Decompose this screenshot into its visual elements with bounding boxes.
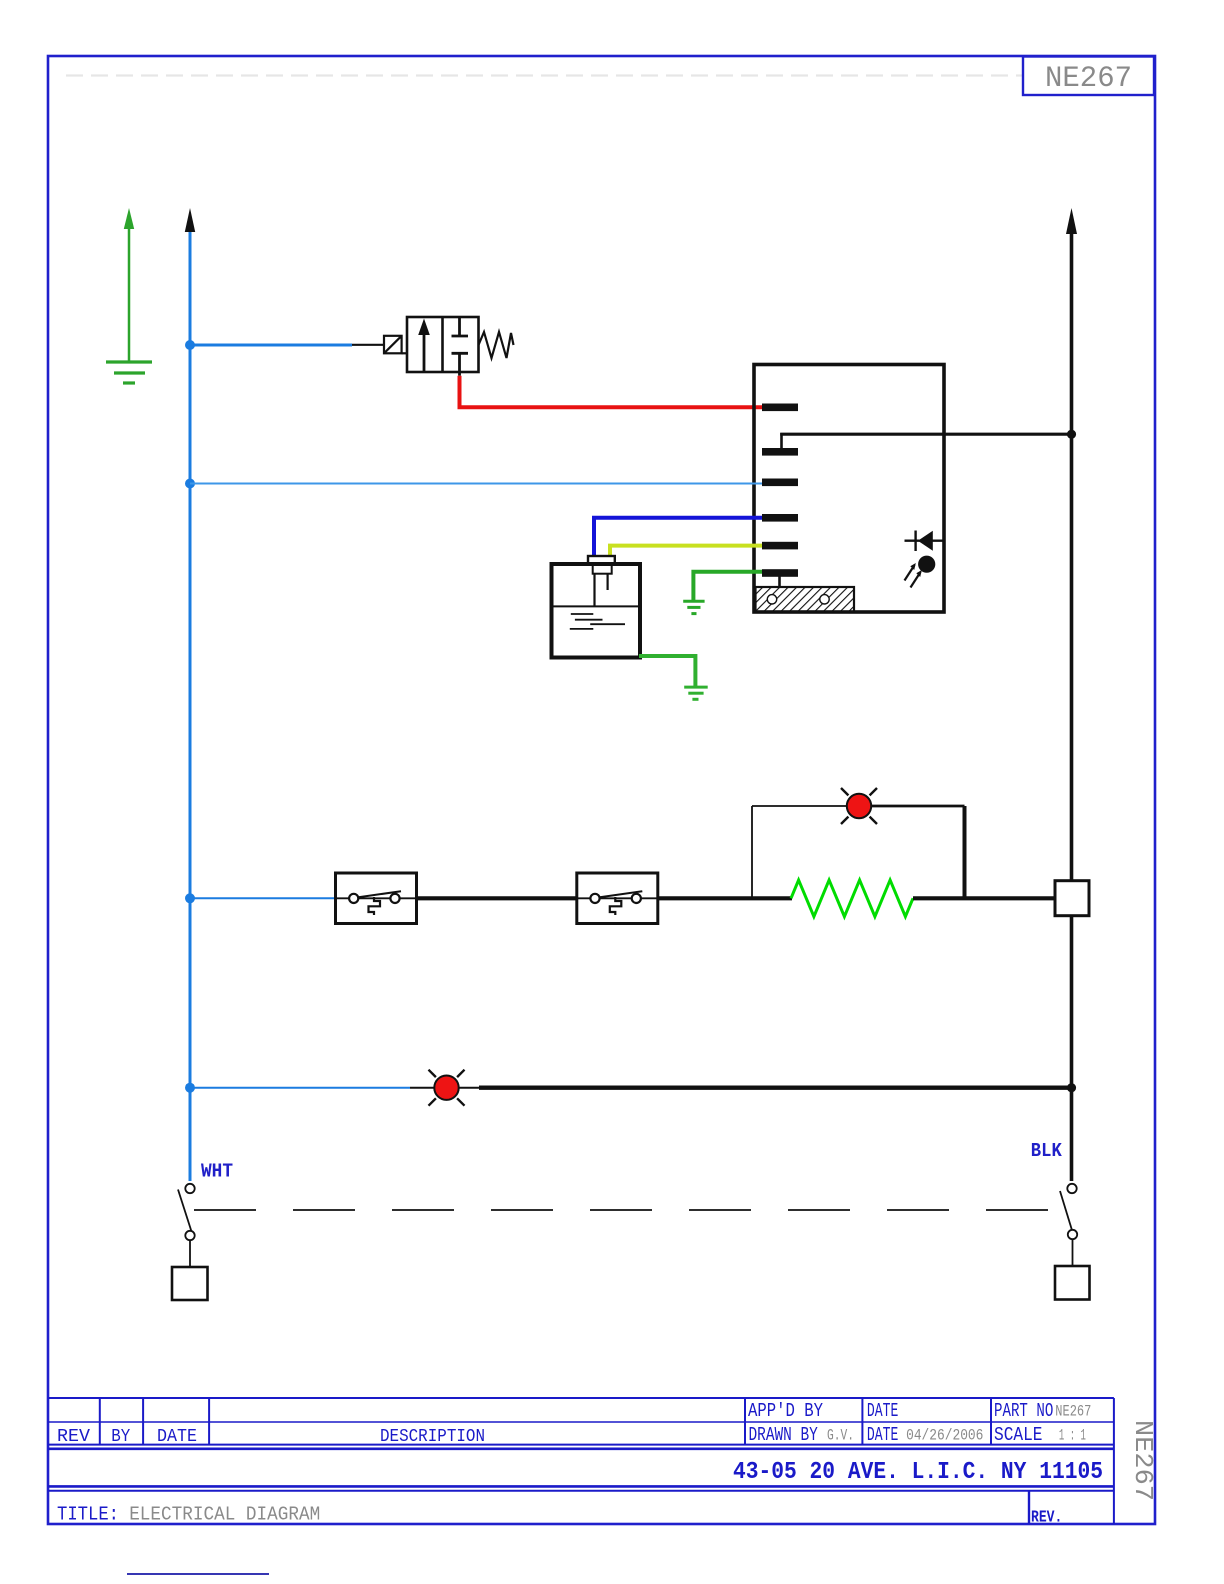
- svg-text:NE267: NE267: [1128, 1420, 1158, 1501]
- solenoid coil actuator: [384, 336, 407, 354]
- thermal switch S2: [577, 873, 658, 924]
- wire: SW1 to plug blade: [189, 1240, 191, 1267]
- wire: SW2 to plug blade: [1072, 1239, 1074, 1266]
- svg-text:NE267: NE267: [1045, 62, 1132, 96]
- lamp L1 branch top wire: [752, 805, 846, 807]
- valve flow arrow: [423, 331, 426, 371]
- svg-text:04/26/2006: 04/26/2006: [906, 1427, 983, 1445]
- svg-text:DESCRIPTION: DESCRIPTION: [380, 1427, 485, 1447]
- node: rail to pin3 wire: [185, 479, 195, 489]
- node on BLK rail at lamp row: [1067, 1083, 1076, 1092]
- faint fold line: [66, 74, 1150, 76]
- pin 3: [762, 479, 798, 487]
- svg-text:ELECTRICAL DIAGRAM: ELECTRICAL DIAGRAM: [129, 1504, 320, 1526]
- sensor arrow 2: [911, 572, 921, 588]
- svg-text:G.V.: G.V.: [827, 1427, 854, 1445]
- svg-text:REV.: REV.: [1031, 1509, 1062, 1528]
- svg-text:PART NO: PART NO: [994, 1400, 1053, 1422]
- pin 6: [762, 569, 798, 577]
- node: rail to valve wire: [185, 340, 195, 350]
- level sensor cap: [588, 556, 615, 574]
- svg-text:BLK: BLK: [1031, 1140, 1063, 1162]
- wire: pin 6 drop to mount: [778, 576, 781, 588]
- wire: resistor to junction block: [913, 896, 1055, 900]
- svg-text:DATE: DATE: [867, 1400, 898, 1422]
- wire: rail to switch S1 (blue): [190, 897, 336, 899]
- svg-text:SCALE: SCALE: [994, 1424, 1043, 1446]
- node: rail to lamp row: [185, 1083, 195, 1093]
- tank T1: [552, 564, 641, 658]
- pin 4: [762, 514, 798, 522]
- green arrowhead: [124, 208, 134, 229]
- svg-text:NE267: NE267: [1055, 1403, 1091, 1421]
- wire: black lead into solenoid coil: [352, 344, 384, 346]
- node on BLK rail: [1067, 430, 1076, 439]
- valve blocked port bottom: [452, 353, 469, 375]
- WHT supply rail (blue vertical): [189, 228, 192, 1181]
- lamp L1 branch left leg: [751, 806, 753, 898]
- sensor probe long: [593, 574, 595, 606]
- pin 2: [762, 448, 798, 456]
- wire: valve to controller pin 1 (red): [460, 376, 764, 408]
- svg-text:REV: REV: [57, 1427, 90, 1447]
- wire: level sensor to pin 5 (yellow): [610, 546, 762, 557]
- wire: level sensor to pin 4 (blue): [594, 518, 762, 557]
- thermal switch S1: [336, 873, 417, 924]
- valve V1 body: [407, 317, 479, 372]
- wire: S2 to resistor: [658, 896, 792, 900]
- title block: vertical lines: [99, 1398, 101, 1445]
- controller module U1: [754, 365, 944, 613]
- svg-text:WHT: WHT: [201, 1161, 233, 1183]
- svg-text:APP'D BY: APP'D BY: [748, 1400, 823, 1422]
- bottom margin blue mark: [127, 1573, 269, 1575]
- svg-text:DRAWN BY: DRAWN BY: [749, 1424, 819, 1446]
- junction block X1: [1055, 881, 1089, 916]
- ground at tank: [684, 687, 708, 699]
- svg-text:DATE: DATE: [867, 1424, 898, 1446]
- svg-text:1 : 1: 1 : 1: [1059, 1427, 1086, 1445]
- SW2 blade: [1060, 1191, 1073, 1234]
- plug blade B (square): [1055, 1266, 1090, 1300]
- valve return spring: [479, 332, 514, 358]
- wire: tank to ground (green): [639, 656, 695, 687]
- ground at pin 6: [683, 601, 704, 613]
- mounting bar (hatched): [756, 587, 855, 611]
- liquid level line: [554, 605, 639, 607]
- wire: S1 to S2: [417, 896, 577, 900]
- black arrowhead on BLK rail: [1066, 208, 1077, 234]
- indicator lamp L2: [429, 1070, 465, 1106]
- lamp L1 branch right leg: [963, 806, 967, 898]
- pin 5: [762, 542, 798, 550]
- internal LED D1: [905, 531, 944, 552]
- liquid ripples: [570, 614, 625, 629]
- wire: pin 6 to ground (green): [693, 572, 762, 602]
- wire: lamp L2 to BLK rail: [479, 1085, 1072, 1089]
- plug switch SW1 terminal top: [185, 1184, 194, 1193]
- photo sensor dot: [918, 556, 935, 573]
- mechanical linkage (dashed): [194, 1209, 1064, 1211]
- BLK rail (black vertical): [1070, 232, 1074, 881]
- plug blade W (square): [172, 1267, 208, 1300]
- wire: pin 2 to BLK rail (black): [780, 433, 1071, 436]
- SW1 blade: [178, 1190, 192, 1232]
- lamp L2 leads: [410, 1087, 435, 1089]
- SW2 terminal bottom: [1068, 1230, 1077, 1239]
- black arrowhead on WHT rail: [185, 208, 195, 232]
- plug switch SW2 terminal top: [1067, 1184, 1076, 1193]
- drawing number box NE267: [1023, 57, 1154, 96]
- valve blocked port top: [452, 317, 469, 336]
- sensor probe short: [606, 574, 608, 590]
- wire: rail to pin 3 (light blue): [190, 483, 762, 485]
- resistor R1 (green): [791, 880, 913, 917]
- ground (green): [106, 362, 152, 383]
- svg-text:BY: BY: [111, 1427, 130, 1447]
- svg-text:DATE: DATE: [157, 1427, 197, 1447]
- wire: lamp row (blue from rail): [190, 1087, 410, 1089]
- indicator lamp L1: [841, 788, 877, 824]
- power rail arrow (green): [128, 227, 131, 362]
- svg-text:TITLE:: TITLE:: [57, 1504, 119, 1526]
- SW1 terminal bottom: [185, 1231, 194, 1240]
- wire: rail to solenoid valve (blue): [190, 344, 352, 347]
- title block: horizontal lines: [48, 1397, 1114, 1399]
- mounting hole 1: [767, 595, 776, 604]
- pin 1: [762, 404, 798, 412]
- sensor arrow 1: [905, 565, 915, 581]
- wire: pin 2 riser: [780, 433, 783, 448]
- node: rail to switch row: [185, 893, 195, 903]
- svg-text:43-05 20 AVE. L.I.C. NY 11105: 43-05 20 AVE. L.I.C. NY 11105: [733, 1459, 1103, 1486]
- mounting hole 2: [820, 595, 829, 604]
